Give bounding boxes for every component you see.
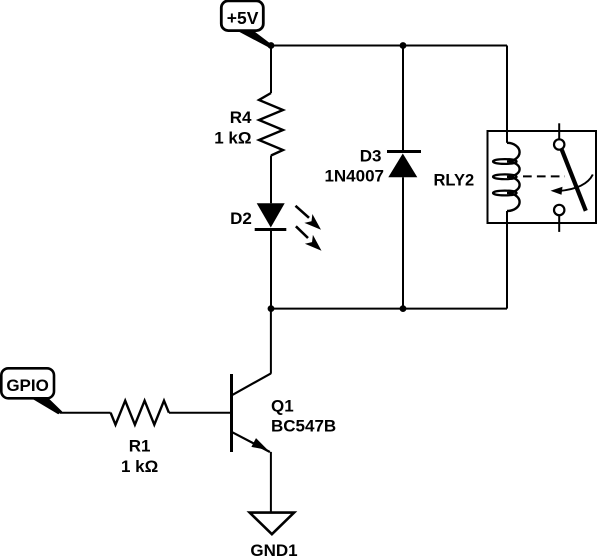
svg-text:GND1: GND1 bbox=[250, 541, 297, 557]
wire rail to relay coil top bbox=[506, 46, 508, 143]
ground GND1 bbox=[250, 513, 298, 557]
wire emitter to ground bbox=[270, 452, 272, 513]
svg-text:D3: D3 bbox=[360, 146, 382, 165]
node junction LED/collector bbox=[268, 305, 275, 312]
svg-text:+5V: +5V bbox=[227, 8, 259, 28]
wire top rail bbox=[271, 45, 507, 47]
svg-text:D2: D2 bbox=[230, 209, 252, 228]
wire R4 to D2 bbox=[270, 156, 272, 204]
svg-text:GPIO: GPIO bbox=[6, 376, 49, 395]
node junction D3 bottom bbox=[400, 305, 407, 312]
wire relay coil bottom to rail bbox=[506, 211, 508, 309]
wire bottom rail bbox=[271, 308, 507, 310]
node junction at +5V rail bbox=[268, 42, 275, 49]
wire collector to junction bbox=[270, 309, 272, 374]
wire D2 to bottom rail bbox=[270, 230, 272, 309]
svg-text:1N4007: 1N4007 bbox=[324, 167, 384, 186]
wire R1 to Q1 base bbox=[169, 412, 230, 414]
diode D3 bbox=[324, 46, 421, 309]
resistor R4 bbox=[214, 93, 283, 156]
resistor R1 bbox=[111, 401, 169, 476]
wire +5V to R4 bbox=[270, 46, 272, 94]
svg-text:1 kΩ: 1 kΩ bbox=[121, 457, 158, 476]
net label +5V bbox=[221, 1, 272, 48]
net label GPIO bbox=[1, 368, 62, 414]
node junction D3 top bbox=[400, 42, 407, 49]
svg-text:BC547B: BC547B bbox=[271, 416, 336, 435]
svg-text:1 kΩ: 1 kΩ bbox=[214, 129, 251, 148]
svg-text:Q1: Q1 bbox=[271, 396, 294, 415]
svg-text:R4: R4 bbox=[230, 108, 252, 127]
wire GPIO to R1 bbox=[60, 412, 111, 414]
svg-text:RLY2: RLY2 bbox=[434, 172, 475, 190]
relay RLY2 bbox=[434, 123, 597, 232]
transistor Q1 bbox=[232, 373, 337, 452]
LED D2 bbox=[230, 203, 321, 250]
svg-text:R1: R1 bbox=[129, 437, 151, 456]
